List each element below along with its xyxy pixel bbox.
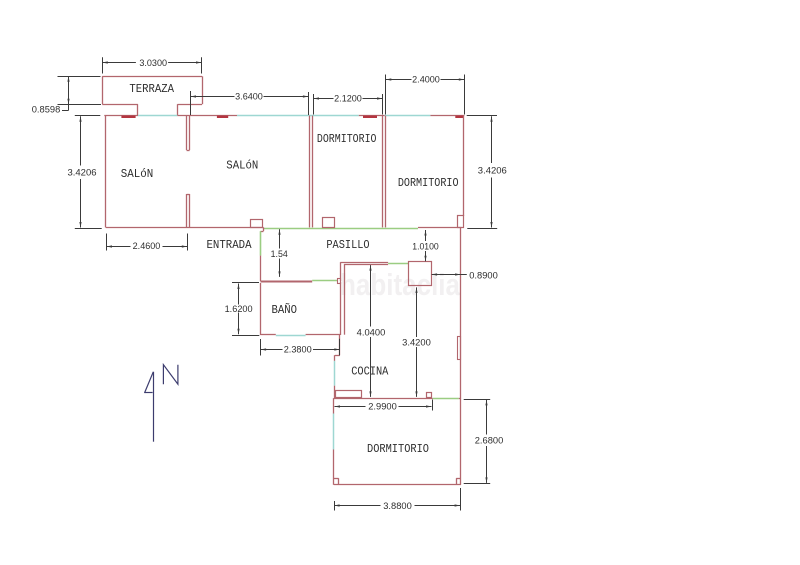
wall jog below bano h <box>335 355 340 357</box>
svg-text:3.4206: 3.4206 <box>68 167 97 177</box>
door stub upper b <box>189 116 191 151</box>
dim 2.4000 extension right <box>464 75 466 115</box>
opening green cocina top <box>388 263 409 265</box>
wall terraza right <box>202 76 204 104</box>
dim 2.4600 extension left <box>106 234 108 251</box>
dim 2.3800 extension left <box>260 339 262 356</box>
counter box cocina <box>336 391 362 398</box>
dim 3.8800 line <box>334 505 380 507</box>
wall dormitorio right <box>463 116 465 216</box>
window glass cyan 2 <box>237 115 359 117</box>
corner jog entrada-bano b <box>260 231 263 233</box>
dim 2.9900 extension right <box>432 400 434 411</box>
partition salon-dormitorio a <box>309 116 311 228</box>
wall bano left upper <box>260 256 262 281</box>
dim 2.6800 extension top <box>464 399 491 401</box>
svg-text:1.54: 1.54 <box>271 249 288 259</box>
door stub cap upper <box>187 150 190 152</box>
dim 2.9900 line <box>335 406 366 408</box>
svg-text:3.4206: 3.4206 <box>478 165 507 175</box>
dim 3.4206 right extension top <box>467 115 497 117</box>
dim 2.4000 line <box>386 79 412 81</box>
wall terraza bottom-left jog <box>137 104 139 115</box>
dim 3.4206 left line <box>80 116 82 165</box>
corner notch dorm3 left <box>334 478 339 480</box>
dim 1.6200 extension top <box>232 282 259 284</box>
wall dorm3 bottom <box>334 484 461 486</box>
dim 4.0400 line <box>370 265 372 326</box>
window cyan bano bottom <box>276 335 306 337</box>
dim 0.8598 line <box>68 76 70 110</box>
wall jog below bano v <box>334 355 336 361</box>
svg-text:TERRAZA: TERRAZA <box>129 83 174 96</box>
dim 2.3800 line <box>261 349 283 351</box>
window sill marker 2 <box>217 116 228 118</box>
door opening green bano left <box>260 231 262 255</box>
svg-text:3.6400: 3.6400 <box>235 92 263 102</box>
wall terraza left <box>102 76 104 104</box>
window glass cyan 3 <box>385 115 431 117</box>
dim 3.6400 extension right <box>308 92 310 115</box>
dim 2.1200 extension left <box>313 94 315 115</box>
svg-text:PASILLO: PASILLO <box>326 239 369 252</box>
wall strip bottom red right <box>418 227 462 229</box>
dim 3.0300 extension left <box>102 57 104 73</box>
north arrow line <box>153 372 155 442</box>
svg-text:2.3800: 2.3800 <box>284 344 312 354</box>
dim 2.1200 extension right <box>382 94 384 115</box>
dim 3.8800 extension right <box>460 488 462 511</box>
door stub lower b <box>189 194 191 227</box>
door stub lower a <box>186 194 188 227</box>
dim 2.4600 line <box>107 246 131 248</box>
wall cocina left outer <box>340 262 342 281</box>
dim 3.0300 extension right <box>201 57 203 73</box>
wall dorm3 top red <box>334 398 433 400</box>
window glass cyan 1 <box>138 115 177 117</box>
svg-text:3.0300: 3.0300 <box>139 58 167 68</box>
door stub cap lower <box>187 194 190 196</box>
floor opening green pasillo <box>264 228 419 230</box>
wall salon left <box>105 116 107 228</box>
door bump dormitorio1 <box>323 218 335 228</box>
wall terraza bottom-right jog <box>177 104 179 115</box>
radiator bar right wall <box>458 337 461 360</box>
wall dorm3 left red lower <box>333 450 335 485</box>
dim 2.6800 extension bottom <box>464 483 491 485</box>
dim 3.4206 right extension bottom <box>467 228 497 230</box>
dim 3.4206 left extension top <box>75 115 101 117</box>
window sill marker 3 <box>363 116 377 118</box>
wall below bano right v <box>339 335 341 355</box>
dim 1.54 line <box>279 229 281 248</box>
wall dorm3 left red upper <box>333 398 335 413</box>
wall top red segment 3 <box>359 115 385 117</box>
svg-text:3.4200: 3.4200 <box>402 337 431 347</box>
svg-text:1.6200: 1.6200 <box>225 304 253 314</box>
window cyan cocina left <box>334 361 336 386</box>
north arrow head <box>145 372 154 393</box>
svg-text:2.4000: 2.4000 <box>412 74 440 84</box>
svg-text:2.9900: 2.9900 <box>368 401 397 411</box>
stove box cocina <box>427 393 432 398</box>
door bump dormitorio2 <box>458 216 464 228</box>
wall bano bottom red right <box>306 334 341 336</box>
wall bano top thick <box>260 281 312 283</box>
svg-text:DORMITORIO: DORMITORIO <box>367 443 429 456</box>
opening green bano top right <box>312 280 337 282</box>
dim 3.4200 line <box>416 287 418 337</box>
dim 2.1200 line <box>314 98 334 100</box>
svg-text:3.8800: 3.8800 <box>383 501 412 511</box>
svg-text:0.8900: 0.8900 <box>469 270 498 280</box>
wall bano left <box>260 283 262 335</box>
svg-text:4.0400: 4.0400 <box>357 327 386 337</box>
svg-text:2.1200: 2.1200 <box>334 94 362 104</box>
svg-text:ENTRADA: ENTRADA <box>207 239 252 252</box>
svg-text:COCINA: COCINA <box>351 365 388 378</box>
svg-text:SALóN: SALóN <box>226 159 258 172</box>
wall top red segment 2 <box>177 115 237 117</box>
window cyan dorm3 left <box>333 414 335 450</box>
dim 0.8598 elbow <box>62 110 69 112</box>
window sill marker 1 <box>121 116 135 118</box>
window sill marker 4 <box>455 116 463 118</box>
door bump entrada <box>251 220 263 228</box>
north arrow letter N <box>163 365 178 385</box>
dim 1.6200 extension bottom <box>232 335 259 337</box>
svg-text:1.0100: 1.0100 <box>412 241 439 251</box>
dim 1.0100 line <box>425 230 427 241</box>
partition dormitorio-dormitorio b <box>385 116 387 228</box>
svg-text:DORMITORIO: DORMITORIO <box>317 133 377 146</box>
dim 1.6200 line <box>238 284 240 305</box>
dim 3.8800 extension left <box>334 501 336 511</box>
partition salon-dormitorio b <box>312 116 314 228</box>
wall terraza top <box>102 76 202 78</box>
dim 2.4600 extension right <box>187 234 189 251</box>
wall cocina left inner <box>344 264 346 335</box>
dim 3.4206 left extension bottom <box>75 228 102 230</box>
corner notch dorm3 right <box>456 478 461 480</box>
dim 2.6800 line <box>486 400 488 435</box>
wall terraza bottom-left horizontal <box>102 104 138 106</box>
dim 3.4206 right line <box>491 116 493 163</box>
dim 0.8598 extension bottom <box>58 104 102 106</box>
wall bano right <box>340 282 342 335</box>
wall dorm3 top red right <box>459 398 461 400</box>
wall top red segment 1 <box>104 115 138 117</box>
fridge box <box>409 262 432 286</box>
dim 3.6400 extension left <box>190 91 192 115</box>
svg-text:DORMITORIO: DORMITORIO <box>398 177 459 190</box>
dim 3.0300 line <box>102 62 136 64</box>
dim 2.4000 extension left <box>385 75 387 115</box>
wall cocina top inner <box>344 264 388 266</box>
svg-text:habitaclia: habitaclia <box>340 267 461 302</box>
dim 0.8598 extension top <box>58 76 101 78</box>
wall cocina left lower <box>334 386 336 398</box>
wall top red segment 4 <box>430 115 464 117</box>
partition dormitorio-dormitorio a <box>382 116 384 228</box>
svg-text:2.6800: 2.6800 <box>475 435 504 445</box>
svg-text:0.8598: 0.8598 <box>32 105 61 115</box>
wall right column <box>460 228 462 485</box>
wall terraza bottom-right horizontal <box>178 104 203 106</box>
svg-text:2.4600: 2.4600 <box>133 241 161 251</box>
door stub upper a <box>186 116 188 151</box>
svg-text:SALóN: SALóN <box>121 168 154 181</box>
dim 2.3800 extension right <box>339 339 341 356</box>
dim 0.8900 line <box>432 274 461 276</box>
wall cocina top outer <box>340 262 388 264</box>
wall strip bottom red left <box>106 227 264 229</box>
wall bano bottom red left <box>260 334 276 336</box>
dim 3.6400 line <box>191 96 235 98</box>
junction bump bano-cocina <box>338 279 341 284</box>
svg-text:BAÑO: BAÑO <box>272 304 298 317</box>
opening green dorm3 top <box>433 398 459 400</box>
corner jog entrada-bano a <box>263 227 265 231</box>
